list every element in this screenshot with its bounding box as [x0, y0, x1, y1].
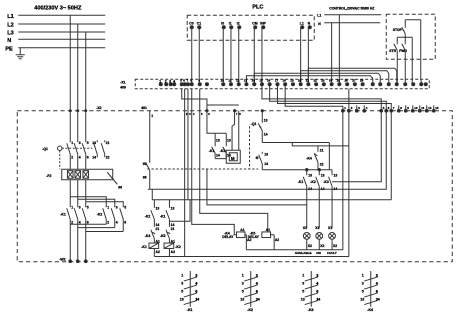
svg-text:13: 13	[244, 78, 248, 82]
svg-text:1: 1	[302, 274, 304, 278]
svg-text:13: 13	[216, 138, 220, 142]
wire X1 jog b	[207, 104, 239, 106]
overload trip arrow	[107, 172, 122, 189]
svg-text:14: 14	[195, 297, 199, 301]
breaker Q1 aux contact 21-22	[101, 140, 109, 159]
wire tap hB	[148, 111, 387, 189]
timer coil K4	[222, 228, 251, 250]
svg-text:400/230V 3~ 50HZ: 400/230V 3~ 50HZ	[34, 5, 82, 11]
svg-text:2: 2	[195, 274, 197, 278]
svg-text:6: 6	[195, 290, 197, 294]
wire phase L1 drop	[69, 15, 71, 140]
crossref K3	[301, 271, 321, 312]
svg-text:4: 4	[195, 282, 197, 286]
svg-text:3: 3	[181, 282, 183, 286]
coil column K1	[141, 200, 160, 257]
svg-text:-K4: -K4	[145, 234, 151, 238]
svg-text:13: 13	[227, 138, 231, 142]
contactor K1 pole 2	[74, 205, 81, 262]
svg-text:-K3: -K3	[308, 308, 314, 312]
svg-text:-X1: -X1	[120, 80, 125, 84]
wire tap hC	[390, 111, 392, 200]
svg-text:3: 3	[242, 282, 244, 286]
svg-text:6: 6	[316, 290, 318, 294]
svg-text:-K1: -K1	[160, 214, 166, 218]
svg-text:2: 2	[71, 155, 73, 159]
svg-text:21: 21	[171, 227, 175, 231]
node phase crossing dots	[69, 110, 71, 112]
svg-text:L2: L2	[7, 22, 14, 28]
svg-text:A2: A2	[275, 238, 279, 242]
linkage dashed vertical	[249, 126, 251, 169]
svg-text:14: 14	[264, 132, 268, 136]
PLC terminal I1	[229, 21, 233, 29]
svg-text:2: 2	[71, 220, 73, 224]
svg-text:14: 14	[264, 162, 268, 166]
svg-text:21: 21	[320, 148, 324, 152]
wire PLC CM to X1	[253, 27, 255, 84]
wire F2 aux drop	[149, 111, 151, 163]
svg-text:4: 4	[79, 155, 81, 159]
svg-text:L3: L3	[7, 30, 14, 36]
wire jumper X1 to X1 c	[301, 71, 389, 85]
svg-text:FAULT: FAULT	[327, 251, 337, 255]
svg-text:5: 5	[362, 290, 364, 294]
svg-text:14: 14	[252, 78, 256, 82]
lamp H3	[328, 226, 337, 250]
svg-text:3: 3	[362, 282, 364, 286]
wire Q1 aux drop	[261, 111, 263, 123]
svg-text:13: 13	[308, 173, 312, 177]
wire M box feed jog	[232, 111, 235, 151]
pushbutton wires L1 entry	[405, 19, 421, 21]
X2 dots group2	[380, 109, 435, 112]
svg-text:13: 13	[171, 206, 175, 210]
svg-text:X2: X2	[333, 244, 337, 248]
lamp captions	[295, 251, 337, 255]
PLC terminal C1	[197, 21, 201, 29]
node crossing labels	[186, 112, 241, 116]
svg-text:DELAY: DELAY	[222, 235, 234, 239]
svg-text:21: 21	[306, 78, 310, 82]
svg-text:-K4: -K4	[367, 308, 373, 312]
svg-text:L1: L1	[7, 14, 14, 20]
svg-text:-K2: -K2	[247, 308, 253, 312]
svg-text:-X2: -X2	[96, 106, 101, 110]
svg-text:C1: C1	[197, 21, 201, 25]
wire tap hA	[332, 111, 381, 182]
overload element 2	[75, 171, 81, 179]
crossref K4	[360, 271, 380, 312]
svg-text:22: 22	[106, 155, 110, 159]
wire rail T drop	[187, 89, 189, 200]
svg-text:C0: C0	[189, 21, 193, 25]
svg-text:25: 25	[337, 78, 341, 82]
svg-text:5: 5	[124, 205, 126, 209]
svg-text:1: 1	[71, 141, 73, 145]
svg-text:STR: STR	[389, 49, 396, 53]
svg-text:4: 4	[116, 220, 118, 224]
wire K2 crossover 1	[70, 223, 106, 225]
wire PLC INP to X1	[261, 27, 263, 84]
svg-text:5: 5	[87, 141, 89, 145]
lamp H2	[315, 226, 324, 250]
wire phase L3 drop	[85, 32, 87, 140]
svg-text:-K3: -K3	[323, 180, 329, 184]
wire branch to K2 pole3	[86, 202, 124, 205]
svg-text:14: 14	[216, 153, 220, 157]
enclosure boundary	[17, 111, 452, 262]
svg-text:28: 28	[360, 78, 364, 82]
device M box	[226, 150, 240, 163]
PLC terminal I2	[237, 21, 241, 29]
svg-text:16: 16	[267, 78, 271, 82]
svg-text:1: 1	[181, 274, 183, 278]
wire PLC I2 to X1	[238, 27, 240, 84]
svg-text:5: 5	[302, 290, 304, 294]
wire control N	[324, 22, 380, 24]
wire phase L2 drop	[77, 24, 79, 140]
svg-text:1: 1	[107, 205, 109, 209]
svg-text:DELAY: DELAY	[248, 235, 260, 239]
timer coil K5	[248, 228, 280, 250]
wire feed drop right	[328, 143, 330, 170]
svg-text:6: 6	[87, 155, 89, 159]
X2 terminal stubs	[357, 105, 434, 111]
overload element 1	[67, 171, 73, 179]
svg-text:-K5: -K5	[160, 234, 166, 238]
svg-text:-W2: -W2	[59, 257, 65, 261]
svg-text:-K2: -K2	[220, 149, 226, 153]
svg-text:6: 6	[376, 290, 378, 294]
terminal strip X1 dots right group	[371, 83, 427, 86]
svg-text:15: 15	[259, 78, 263, 82]
svg-text:4: 4	[173, 79, 175, 83]
X2 dots group1	[341, 109, 365, 112]
svg-text:4: 4	[79, 220, 81, 224]
wire jumper X1 to X1 a	[246, 76, 372, 85]
svg-text:2: 2	[107, 220, 109, 224]
svg-text:5: 5	[242, 290, 244, 294]
terminal strip X1 dots mid group	[180, 83, 208, 86]
wire branch to K2 pole1	[70, 197, 106, 205]
wire jumper X1 to X1 d	[308, 68, 396, 84]
svg-text:21: 21	[106, 141, 110, 145]
svg-text:17: 17	[275, 78, 279, 82]
svg-text:2: 2	[376, 274, 378, 278]
svg-text:3: 3	[79, 205, 81, 209]
wire PLC I0 to X1	[222, 27, 224, 84]
svg-text:1: 1	[71, 205, 73, 209]
overload F2 box	[62, 169, 113, 180]
svg-text:-Q1: -Q1	[251, 122, 257, 126]
wire N drop from X2	[342, 111, 344, 250]
svg-text:-K2: -K2	[145, 214, 151, 218]
wire PLC I1 to X1	[230, 27, 232, 84]
contactor K1 pole 3	[82, 205, 89, 262]
wire sub-box feed	[207, 111, 215, 134]
wire phases overload to K1	[69, 180, 71, 205]
wire PLC C0 to X1	[191, 27, 193, 84]
svg-text:13: 13	[264, 118, 268, 122]
svg-text:13: 13	[334, 173, 338, 177]
svg-text:N: N	[7, 38, 11, 44]
node rail junction 2	[318, 169, 320, 171]
svg-text:-K2: -K2	[310, 180, 316, 184]
svg-text:INP: INP	[260, 21, 266, 25]
svg-text:27: 27	[352, 78, 356, 82]
wire K2 crossover 3	[86, 230, 124, 232]
breaker Q1 operator	[58, 146, 62, 150]
svg-text:18: 18	[283, 78, 287, 82]
node X2 dot b	[233, 110, 235, 112]
node X2 dot a	[206, 110, 208, 112]
breaker Q1 pole 2	[74, 140, 81, 169]
svg-text:-F2: -F2	[46, 174, 51, 178]
svg-text:-K1: -K1	[141, 245, 147, 249]
svg-text:20: 20	[298, 78, 302, 82]
wire N rail	[18, 38, 105, 40]
svg-text:13: 13	[92, 141, 96, 145]
svg-text:14: 14	[256, 297, 260, 301]
breaker Q1 pole 3	[82, 140, 89, 169]
wire control feed horizontal	[262, 142, 329, 144]
pushbutton START S1	[389, 42, 397, 59]
svg-text:3: 3	[169, 79, 171, 83]
wire X1 to X2 feed b	[270, 84, 387, 111]
terminal strip X1 dots dense group	[222, 83, 365, 86]
svg-text:11: 11	[228, 78, 231, 82]
lamp H1	[303, 226, 312, 250]
svg-text:21: 21	[156, 227, 160, 231]
svg-text:96: 96	[118, 185, 122, 189]
svg-text:13: 13	[240, 297, 244, 301]
svg-text:26: 26	[345, 78, 349, 82]
svg-text:-K1: -K1	[60, 212, 66, 216]
svg-text:13: 13	[156, 206, 160, 210]
svg-text:-K4: -K4	[306, 156, 312, 160]
svg-text:L1: L1	[317, 13, 321, 17]
aux contact Q1 13-14	[251, 118, 268, 142]
svg-text:1: 1	[159, 79, 161, 83]
svg-text:ON: ON	[316, 251, 321, 255]
wire staircase K5 feed	[200, 89, 268, 232]
wire control L1	[324, 14, 381, 16]
svg-text:22: 22	[314, 78, 318, 82]
contact row2 K3	[323, 170, 337, 229]
svg-text:-K2: -K2	[175, 245, 181, 249]
contact K aux below Q1	[256, 152, 268, 170]
svg-text:6: 6	[124, 220, 126, 224]
svg-text:3: 3	[302, 282, 304, 286]
pushbutton station box	[386, 14, 435, 59]
svg-text:12: 12	[236, 78, 240, 82]
contact F2 95-96	[143, 162, 150, 190]
wire start parallel loop	[397, 36, 412, 38]
svg-text:3: 3	[116, 205, 118, 209]
contact row2 K1	[298, 170, 312, 229]
svg-text:-Q1: -Q1	[42, 147, 48, 151]
wire PLC L1 to X1	[300, 27, 302, 84]
wire PLC N to X1	[307, 27, 309, 84]
svg-text:10: 10	[414, 106, 418, 110]
terminal strip X1 micro labels	[180, 78, 363, 82]
svg-text:1: 1	[242, 274, 244, 278]
svg-text:A2: A2	[171, 250, 175, 254]
crossref K1	[180, 271, 200, 312]
wire station to X1 terminals	[396, 59, 398, 84]
svg-text:13: 13	[180, 297, 184, 301]
PLC terminal CM	[252, 21, 257, 29]
svg-text:6: 6	[87, 220, 89, 224]
wire staircase K4 feed	[192, 89, 237, 235]
PLC terminal C0	[189, 21, 193, 29]
svg-text:13: 13	[435, 106, 439, 110]
aux contact box K1 13-14	[209, 133, 231, 158]
terminal strip X1	[135, 79, 429, 89]
svg-text:13: 13	[321, 173, 325, 177]
motor cable terminal dots	[69, 260, 72, 263]
svg-text:4: 4	[316, 282, 318, 286]
wire stop drop	[404, 20, 406, 27]
breaker Q1 pole 1	[67, 140, 74, 169]
wire X1 jog to X2 a	[182, 89, 207, 111]
wire staircase K2 interlock	[169, 200, 190, 222]
svg-text:24: 24	[329, 78, 333, 82]
contactor K1 pole 1	[67, 205, 74, 262]
svg-text:23: 23	[321, 78, 325, 82]
svg-text:CM: CM	[252, 21, 257, 25]
wire X1 to X2 feed c	[277, 84, 391, 111]
PLC terminal L1	[300, 21, 304, 29]
svg-text:PE: PE	[5, 46, 13, 52]
svg-text:L1: L1	[300, 21, 304, 25]
wire PE rail	[18, 47, 105, 49]
wire L1 rail	[18, 14, 105, 16]
wire long rail coil feed	[151, 189, 153, 200]
svg-text:4: 4	[256, 282, 258, 286]
svg-text:1: 1	[151, 114, 153, 118]
svg-text:X1: X1	[328, 226, 332, 230]
contact row2 K2	[310, 170, 324, 229]
svg-text:96: 96	[143, 175, 147, 179]
overload element 3	[83, 171, 89, 179]
breaker Q1 linkage dashes	[60, 148, 93, 169]
svg-text:-K1: -K1	[298, 180, 304, 184]
svg-text:10: 10	[221, 78, 225, 82]
wire branch to K2 pole2	[78, 199, 115, 205]
PLC terminal N	[308, 21, 312, 29]
wire rail 169.5	[262, 169, 332, 171]
wire PLC C1 to X1	[198, 27, 200, 84]
wire X1 to N return	[184, 89, 186, 257]
node X2 dot c	[261, 110, 263, 112]
wire X1 to X2 feed a	[262, 84, 381, 111]
svg-text:X2: X2	[320, 244, 324, 248]
svg-text:-K2: -K2	[97, 212, 103, 216]
contactor K2 pole 1	[103, 205, 110, 225]
svg-text:CONTROL,230VAC 50/60 HZ: CONTROL,230VAC 50/60 HZ	[329, 6, 374, 10]
wire NC top to X2	[348, 89, 350, 257]
crossref K2	[240, 271, 260, 312]
wire PE drop	[19, 48, 21, 55]
svg-text:X1: X1	[303, 226, 307, 230]
svg-text:14: 14	[92, 155, 96, 159]
svg-text:A1: A1	[266, 228, 270, 232]
svg-text:13: 13	[301, 297, 305, 301]
svg-text:6: 6	[256, 290, 258, 294]
wire N return	[246, 249, 343, 251]
svg-text:X1: X1	[315, 226, 319, 230]
svg-text:I2: I2	[237, 21, 240, 25]
svg-text:A1: A1	[240, 228, 244, 232]
svg-text:14: 14	[316, 297, 320, 301]
wire coil return	[154, 255, 349, 257]
svg-text:2: 2	[165, 79, 167, 83]
wire L2 rail	[18, 23, 105, 25]
svg-text:I1: I1	[229, 21, 232, 25]
svg-text:-K1: -K1	[209, 149, 215, 153]
wire L3 rail	[18, 31, 105, 33]
svg-text:STOP: STOP	[393, 28, 403, 32]
svg-text:1: 1	[362, 274, 364, 278]
linkage dashed horizontal	[147, 168, 258, 170]
svg-text:3: 3	[79, 141, 81, 145]
svg-text:M: M	[231, 156, 235, 161]
coil column K2	[160, 200, 181, 257]
svg-text:A2: A2	[156, 250, 160, 254]
svg-text:2: 2	[316, 274, 318, 278]
svg-text:2: 2	[256, 274, 258, 278]
svg-text:5: 5	[87, 205, 89, 209]
contactor K2 pole 3	[120, 205, 127, 232]
wire jumper X1 to X1 b	[254, 73, 380, 84]
pushbutton START S2	[399, 42, 407, 59]
terminal strip X1 dots left group	[159, 79, 176, 86]
wire staircase b	[207, 169, 307, 205]
PLC terminal INP	[260, 21, 266, 29]
pushbutton STOP S0	[393, 26, 406, 37]
wire N through station	[420, 20, 422, 60]
wire control L1 drop	[338, 15, 340, 85]
svg-text:5: 5	[181, 290, 183, 294]
wire control N drop	[331, 23, 333, 85]
svg-text:13: 13	[360, 297, 364, 301]
svg-text:X2: X2	[308, 244, 312, 248]
svg-text:401: 401	[141, 106, 147, 110]
svg-text:95: 95	[143, 162, 147, 166]
svg-text:I0: I0	[221, 21, 224, 25]
svg-text:PLC: PLC	[252, 4, 263, 10]
svg-text:22: 22	[320, 162, 324, 166]
ground	[16, 55, 25, 59]
svg-text:14: 14	[376, 297, 380, 301]
svg-text:400: 400	[120, 85, 126, 89]
svg-text:FWD: FWD	[399, 49, 407, 53]
wire X1 to X2 feed d	[285, 84, 343, 111]
X2 micro labels	[344, 106, 439, 110]
contact NC K4 feedback	[292, 143, 349, 170]
wire M box feed 2	[238, 111, 240, 151]
svg-text:11: 11	[421, 106, 424, 110]
svg-text:AVAILABLE: AVAILABLE	[295, 251, 312, 255]
svg-text:13: 13	[264, 152, 268, 156]
PLC terminal I0	[221, 21, 225, 29]
node rail junction 1	[306, 169, 308, 171]
wire K2 crossover 2	[78, 227, 115, 229]
breaker Q1 aux contact 13-14	[92, 140, 97, 159]
svg-text:4: 4	[376, 282, 378, 286]
